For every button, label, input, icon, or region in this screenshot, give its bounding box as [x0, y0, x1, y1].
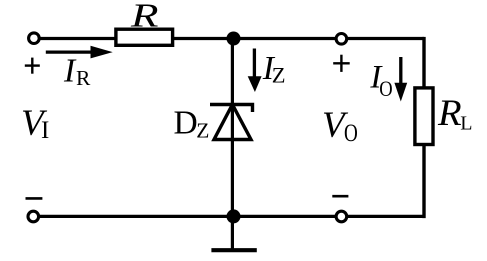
svg-text:Z: Z — [272, 62, 286, 87]
svg-text:O: O — [344, 118, 358, 147]
svg-text:I: I — [41, 117, 49, 144]
zener diode DZ cathode bar — [210, 105, 253, 113]
terminal output plus — [336, 34, 347, 45]
minus sign output — [332, 195, 348, 198]
svg-text:Z: Z — [196, 118, 209, 142]
svg-text:O: O — [379, 76, 392, 101]
svg-text:I: I — [63, 52, 77, 89]
wire right vertical from top corner down to RL — [422, 37, 425, 88]
svg-text:R: R — [130, 0, 159, 34]
node junction bottom — [227, 209, 241, 223]
wire right vertical from RL to bottom rail — [422, 145, 425, 218]
svg-text:D: D — [174, 105, 198, 142]
plus sign input — [25, 58, 40, 74]
zener diode DZ triangle — [214, 105, 251, 140]
svg-text:R: R — [437, 92, 462, 133]
current arrow IO — [394, 57, 407, 102]
resistor RL — [415, 88, 433, 145]
svg-text:R: R — [76, 66, 91, 90]
terminal output minus — [336, 211, 347, 222]
wire middle vertical branch through zener — [231, 39, 234, 217]
wire top rail from input terminal to output corner — [40, 37, 424, 40]
current arrow IR — [46, 46, 113, 59]
ground — [211, 248, 256, 252]
wire bottom rail — [39, 215, 424, 218]
current arrow IZ — [248, 49, 262, 93]
terminal input minus — [28, 211, 39, 222]
svg-text:L: L — [460, 112, 472, 134]
terminal input plus — [29, 33, 40, 44]
resistor R — [116, 29, 173, 45]
node junction top — [227, 32, 241, 46]
plus sign output — [333, 55, 350, 72]
wire ground stem — [231, 217, 234, 250]
minus sign input — [26, 197, 43, 200]
